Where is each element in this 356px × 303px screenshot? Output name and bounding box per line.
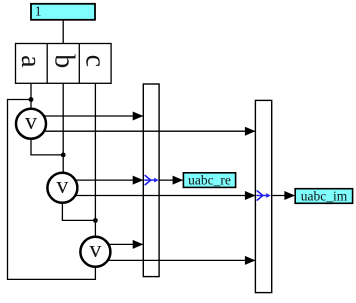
svg-text:1: 1 [35,3,42,18]
svg-text:a: a [15,55,46,68]
svg-text:c: c [79,55,110,67]
svg-text:uabc_im: uabc_im [301,189,348,204]
svg-text:v: v [56,173,68,199]
svg-text:uabc_re: uabc_re [188,173,231,188]
svg-text:v: v [25,109,37,135]
svg-text:b: b [48,54,79,68]
svg-text:v: v [89,237,101,263]
